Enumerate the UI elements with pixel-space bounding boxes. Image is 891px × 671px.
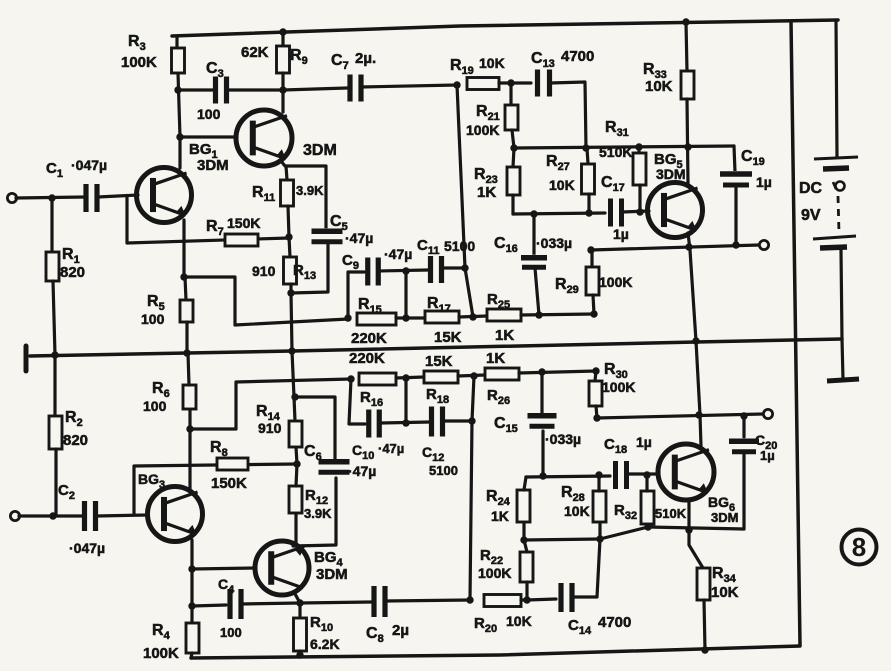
label R7 (206, 218, 224, 238)
wire R31 bottom lead (638, 185, 641, 212)
svg-text:·47µ: ·47µ (378, 441, 404, 456)
battery plate long top (814, 157, 858, 159)
wire R6 bottom lead (188, 409, 191, 429)
capacitor C17 (609, 199, 624, 227)
label C13 (531, 50, 555, 70)
label R14 (256, 403, 281, 423)
label C11 value 5100 (444, 238, 475, 254)
svg-text:10K: 10K (549, 177, 575, 193)
output terminal bottom (763, 409, 772, 418)
svg-text:820: 820 (60, 264, 85, 281)
svg-text:1µ: 1µ (760, 448, 775, 463)
label C12 value 5100 (429, 463, 458, 478)
wire BG4 collector to R10 (294, 592, 300, 603)
label R28 value 10K (564, 503, 590, 519)
resistor R29 (586, 267, 599, 295)
junction R5/R6 mid rail (183, 349, 190, 356)
resistor R2 (49, 416, 62, 449)
wire R34 to bottom rail (704, 600, 705, 650)
transistor BG1 (137, 168, 192, 223)
wire R9 to BG2 collector (281, 73, 284, 112)
resistor R32 (641, 491, 654, 524)
wire R33 to BG5 collector (687, 99, 688, 184)
svg-text:5100: 5100 (444, 238, 475, 254)
svg-text:DC: DC (799, 180, 823, 197)
label C5 value 47u (345, 230, 373, 246)
junction emitter chain/mid rail (692, 337, 699, 344)
label R9 (290, 47, 308, 67)
resistor R5 (180, 300, 193, 322)
svg-text:510K: 510K (655, 506, 687, 521)
label C17 value 1u (613, 226, 629, 242)
svg-text:100: 100 (220, 625, 242, 640)
wire BG6 base line (526, 476, 610, 477)
svg-text:3DM: 3DM (197, 157, 229, 174)
junction R10/bottom rail (296, 651, 303, 658)
wire C3 line to C7 (283, 88, 347, 90)
label R6 value 100 (143, 398, 167, 414)
junction ladder/long riser (469, 313, 476, 320)
label C9 (342, 252, 359, 272)
label R26 value 1K (486, 350, 505, 367)
svg-text:220K: 220K (349, 350, 385, 367)
junction R32/base line2 (643, 471, 650, 478)
input terminal J1 (7, 193, 16, 202)
label R12 (305, 487, 328, 507)
svg-text:9V: 9V (801, 207, 821, 224)
node B2 (R8/R12/R14) (293, 460, 300, 467)
resistor R30 (589, 381, 602, 406)
label R13 value 910 (252, 263, 276, 279)
svg-text:·47µ: ·47µ (348, 463, 376, 479)
svg-text:3DM: 3DM (656, 166, 686, 182)
wire emitter zigzag to ladder (184, 277, 348, 325)
capacitor C12 (430, 407, 445, 437)
resistor R28 (593, 491, 606, 522)
wire BG5 base line (513, 213, 605, 214)
wire R4 to bottom rail (191, 653, 192, 658)
label R24 value 1K (491, 508, 509, 524)
junction R28/base line2 (595, 471, 602, 478)
svg-text:100K: 100K (602, 379, 635, 395)
wire C15 bottom riser (541, 431, 544, 476)
label BG5 (654, 151, 683, 171)
capacitor C3 (214, 77, 229, 104)
svg-text:3DM: 3DM (316, 566, 348, 583)
capacitor C10 (367, 410, 382, 438)
wire R11 bottom lead (288, 206, 289, 237)
wire C3 line (178, 88, 215, 91)
wire C6 top link (295, 397, 335, 461)
wire mid vertical R13-R14 (291, 293, 295, 421)
label C9 value 47u (384, 246, 412, 262)
resistor R16 (359, 373, 396, 385)
label R19 value 10K (479, 55, 505, 71)
resistor R15 (357, 313, 396, 325)
label C15 (494, 415, 518, 435)
label R17 value 15K (434, 329, 462, 346)
junction ladder/riser C9 (344, 314, 351, 321)
wire R22node to C14 (527, 599, 556, 600)
svg-text:15K: 15K (434, 329, 462, 346)
wire R3 top lead (175, 36, 178, 48)
junction ladder/C16 (535, 311, 542, 318)
wire R9 top lead (281, 33, 284, 46)
svg-text:100K: 100K (478, 565, 511, 581)
junction C9/C11 riser (402, 267, 409, 274)
label BG4 type 3DM (316, 566, 348, 583)
wire mid bias rail (30, 339, 842, 356)
wire battery positive lead (836, 20, 837, 157)
junction R13/C5 bottom (287, 289, 294, 296)
svg-text:3.9K: 3.9K (304, 506, 332, 521)
svg-text:100: 100 (197, 106, 221, 122)
wire R28 top lead (597, 475, 600, 491)
wire C19 to output line (734, 186, 737, 245)
resistor R25 (487, 309, 521, 321)
wire ladder R17-R25 (459, 316, 487, 317)
wire BG6 collector down (689, 499, 703, 568)
wire R28 bottom lead (598, 522, 601, 539)
label C2 value 047u (69, 540, 105, 556)
svg-text:3.9K: 3.9K (296, 183, 324, 198)
wire R14 bottom lead (296, 447, 297, 464)
wire BG2 base (180, 135, 237, 138)
resistor R23 (507, 167, 520, 195)
label C10 value 47u (378, 441, 404, 456)
wire BG2 emitter to C5 riser (281, 161, 326, 228)
wire R13 top lead (289, 237, 290, 257)
resistor R20 (484, 595, 521, 607)
label R32 value 510K (655, 506, 687, 521)
svg-text:1µ: 1µ (613, 226, 629, 242)
svg-text:·47µ: ·47µ (384, 246, 412, 262)
capacitor C15 (527, 413, 558, 430)
page number 8 (842, 530, 877, 565)
label R20 (474, 615, 497, 635)
junction ladder2/riser C10 (347, 375, 354, 382)
label R11 value 3.9K (296, 183, 324, 198)
label BG5 type 3DM (656, 166, 686, 182)
junction ladder/R29 (590, 310, 597, 317)
wire BG5 emitter chain (688, 233, 701, 446)
svg-text:100K: 100K (143, 645, 179, 662)
junction C12/long riser (468, 417, 475, 424)
resistor R13 (284, 257, 297, 284)
label R30 value 100K (602, 379, 635, 395)
label R25 (487, 291, 510, 311)
wire R24 top lead (524, 477, 526, 490)
svg-text:15K: 15K (425, 353, 453, 370)
junction C15 bottom (539, 472, 546, 479)
resistor R18 (424, 371, 458, 383)
junction R14/C6 top (291, 393, 298, 400)
capacitor C7 (348, 75, 363, 102)
node A2 (C8/R20/riser) (466, 596, 473, 603)
junction ladder2 mid (402, 374, 409, 381)
resistor R3 (172, 48, 185, 73)
wire R30 bottom lead (596, 406, 597, 418)
junction C13 riser / line (582, 144, 589, 151)
label BG6 type 3DM (711, 510, 738, 525)
junction R22 top (520, 536, 527, 543)
label C20 value 1u (760, 448, 775, 463)
junction R21 bottom (510, 144, 517, 151)
wire long riser nodeA to ladder (457, 85, 473, 317)
wire emitter zigzag to ladder btm (190, 379, 351, 429)
junction ladder2/R30 (592, 367, 599, 374)
svg-text:150K: 150K (211, 475, 247, 492)
label R25 value 1K (495, 327, 514, 344)
wire C16 bottom riser (535, 268, 539, 315)
resistor R4 (186, 623, 199, 653)
label BG4 (314, 549, 344, 569)
wire C5 bottom link (291, 243, 328, 293)
svg-text:·047µ: ·047µ (71, 157, 107, 173)
junction C11/long riser (461, 264, 468, 271)
resistor R12 (289, 486, 302, 513)
label C1 (46, 160, 63, 180)
wire input2 to C2 (19, 514, 83, 517)
resistor R34 (697, 568, 710, 600)
junction emitter/output (685, 243, 692, 250)
wire C20 top riser (742, 416, 745, 437)
junction R9 / C3 line (279, 86, 286, 93)
ground bar below battery (827, 379, 859, 381)
wire BG1 emitter down (182, 220, 185, 277)
svg-text:1µ: 1µ (756, 174, 772, 190)
svg-text:100: 100 (141, 311, 165, 327)
junction input2/R2 (49, 512, 56, 519)
label C7 (331, 52, 349, 72)
label R34 value 10K (711, 584, 739, 601)
wire R30 top lead (595, 371, 596, 381)
wire battery negative lead (841, 250, 843, 379)
svg-text:1K: 1K (495, 327, 514, 344)
wire C12 right link (443, 419, 472, 422)
resistor R33 (681, 71, 694, 99)
junction ladder mid (402, 314, 409, 321)
label R22 (480, 547, 503, 567)
label C12 (422, 444, 444, 464)
wire BG4 base (192, 568, 255, 569)
label C8 (366, 625, 384, 645)
wire R5 leads (185, 277, 186, 300)
junction ladder2/long riser (470, 372, 477, 379)
wire R4 top lead (190, 606, 193, 623)
junction R1/R2 mid rail (51, 351, 58, 358)
battery dashed link (838, 196, 839, 233)
wire R32 bottom lead (646, 524, 649, 527)
svg-text:·033µ: ·033µ (536, 235, 572, 251)
svg-text:1µ: 1µ (636, 434, 652, 450)
wire C14 right link (572, 539, 600, 597)
svg-text:4700: 4700 (561, 48, 594, 65)
wire long riser A2 to ladder2 (470, 376, 474, 600)
wire R29 bottom lead (593, 295, 594, 314)
wire right-side rail (791, 21, 800, 645)
junction R31/base line (636, 208, 643, 215)
capacitor C4 (228, 589, 243, 619)
junction C10/C12 riser (402, 419, 409, 426)
label C8 value 2u (392, 622, 409, 639)
label C20 (755, 432, 777, 452)
wire R21 top lead (509, 83, 512, 105)
svg-text:100: 100 (143, 398, 167, 414)
resistor R1 (46, 252, 59, 281)
svg-text:10K: 10K (506, 613, 532, 629)
junction top rail / R9 (279, 28, 286, 35)
junction R31 top (635, 143, 642, 150)
label R29 value 100K (599, 274, 632, 290)
wire node line y535 (524, 527, 744, 540)
label C4 value 100 (220, 625, 242, 640)
junction BG6 collector / y535 line (685, 526, 692, 533)
label C7 value 2u (355, 50, 376, 67)
wire ladder2 R16-R18 (396, 377, 424, 378)
label R12 value 3.9K (304, 506, 332, 521)
label C11 (417, 237, 439, 257)
svg-text:4700: 4700 (598, 614, 631, 631)
label R26 (487, 387, 510, 407)
junction emitter2/output (695, 411, 702, 418)
label BG3 (138, 471, 165, 491)
wire C3 to R9 node (227, 88, 283, 91)
label R3 value 100K (121, 54, 157, 71)
junction R30/output line2 (593, 414, 600, 421)
resistor R21 (505, 105, 518, 130)
label C18 value 1u (636, 434, 652, 450)
label R4 (152, 622, 171, 642)
resistor R10 (294, 618, 307, 651)
label R6 (152, 380, 170, 400)
svg-text:6.2K: 6.2K (310, 636, 340, 652)
wire BG3 collector down (190, 540, 193, 606)
capacitor C20 (728, 438, 760, 455)
label R2 (65, 409, 83, 429)
capacitor C5 (311, 228, 344, 245)
wire mid rail to R2 (53, 355, 56, 416)
battery plate short top (823, 168, 849, 169)
capacitor C6 (318, 459, 351, 476)
svg-text:2µ.: 2µ. (355, 50, 376, 67)
wire ladder2 R18-R26 (458, 375, 485, 376)
wire C20 bottom riser (742, 452, 745, 529)
svg-text:3DM: 3DM (711, 510, 738, 525)
label R11 (252, 184, 275, 204)
wire R10 top lead (298, 603, 301, 618)
wire C18 to BG6 base (627, 472, 658, 475)
node B (R7/R11/R13) (285, 233, 292, 240)
wire C10 to C12 (380, 422, 430, 423)
svg-text:220K: 220K (351, 330, 387, 347)
svg-text:·47µ: ·47µ (345, 230, 373, 246)
junction R22 bottom (523, 596, 530, 603)
label C17 (601, 174, 625, 194)
wire BG1 base feedback hook (127, 197, 289, 243)
wire R12 top lead (296, 464, 297, 486)
wire C4 to R10 node (241, 603, 300, 604)
label R30 (604, 361, 628, 381)
transistor BG4 (255, 541, 309, 595)
label R4 value 100K (143, 645, 179, 662)
label R21 (476, 103, 500, 123)
label BG2 type 3DM (303, 142, 337, 159)
label C14 (568, 617, 592, 637)
wire C8 to node A2 (385, 600, 470, 601)
svg-text:150K: 150K (227, 215, 260, 231)
capacitor C14 (559, 583, 574, 612)
label R1 (62, 246, 80, 266)
label R10 value 6.2K (310, 636, 340, 652)
label R14 value 910 (258, 420, 282, 436)
label R33 (643, 61, 667, 81)
label battery 9V (801, 207, 821, 224)
wire R22 bottom lead (525, 582, 528, 600)
wire input1 to C1 (16, 197, 85, 198)
output terminal top (759, 240, 768, 249)
wire R24 bottom lead (522, 522, 525, 540)
label C14 value 4700 (598, 614, 631, 631)
label C3 value 100 (197, 106, 221, 122)
junction mid vertical / rail (288, 347, 295, 354)
label R28 (561, 484, 585, 504)
wire C15 top riser (540, 372, 543, 415)
junction BG1 collector / BG2 base (176, 133, 183, 140)
battery plate short bottom (820, 247, 847, 248)
node A (C7/R19/riser) (453, 81, 460, 88)
label C5 (330, 213, 348, 233)
junction C19/output (732, 241, 739, 248)
resistor R24 (517, 490, 530, 522)
svg-text:1K: 1K (477, 184, 496, 201)
svg-text:10K: 10K (479, 55, 505, 71)
transistor BG6 (658, 444, 714, 500)
wire C17 to BG5 base (622, 211, 649, 212)
wire R22 top lead (524, 540, 527, 552)
svg-text:100K: 100K (599, 274, 632, 290)
label R29 (555, 276, 579, 296)
label R7 value 150K (227, 215, 260, 231)
resistor R6 (183, 385, 196, 409)
junction ladder2/C15 (538, 368, 545, 375)
svg-text:2µ: 2µ (392, 622, 409, 639)
wire R27 top lead (587, 148, 588, 164)
wire top supply rail (172, 20, 838, 36)
junction BG3 collector/BG4 base (188, 565, 195, 572)
wire R5 to mid rail (185, 322, 188, 353)
svg-text:910: 910 (258, 420, 282, 436)
label R10 (310, 614, 333, 634)
svg-text:1K: 1K (491, 508, 509, 524)
label C18 (604, 436, 627, 456)
label C6 (304, 443, 322, 463)
label R32 (614, 502, 637, 522)
label C6 value 47u (348, 463, 376, 479)
junction R10/C4 line (296, 599, 303, 606)
svg-text:10K: 10K (645, 78, 673, 95)
label C2 (58, 482, 75, 502)
label R15 (358, 296, 382, 316)
capacitor C19 (719, 171, 753, 188)
label R16 (360, 389, 383, 409)
label R27 (546, 153, 570, 173)
junction R27/base line (585, 209, 592, 216)
label C3 (206, 60, 224, 80)
label R22 value 100K (478, 565, 511, 581)
wire R1 to mid rail (53, 281, 55, 355)
svg-text:1K: 1K (486, 350, 505, 367)
